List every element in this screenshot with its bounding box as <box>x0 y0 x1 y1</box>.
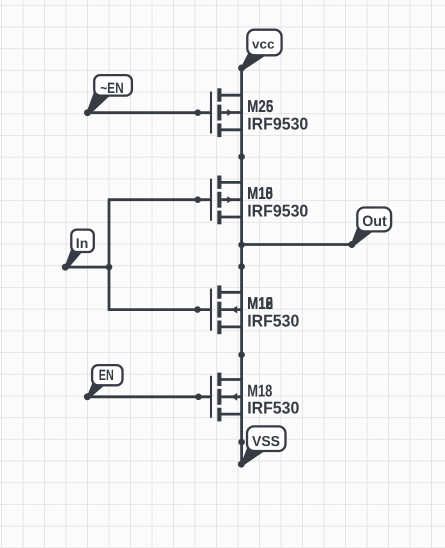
pin dot M26 gate <box>195 109 202 116</box>
wire: EN to M18 gate <box>87 395 210 398</box>
svg-text:IRF9530: IRF9530 <box>247 202 308 221</box>
transistor M26 (PMOS) <box>211 88 242 137</box>
svg-text:~EN: ~EN <box>100 80 124 97</box>
wire: ~EN to M26 gate <box>88 111 211 114</box>
net flag VSS <box>238 426 286 467</box>
transistor M15 (NMOS) <box>211 285 242 334</box>
wire: In to M18 gate <box>109 198 210 201</box>
svg-text:IRF9530: IRF9530 <box>247 114 308 133</box>
wire: Out <box>242 243 352 246</box>
svg-text:IRF530: IRF530 <box>247 399 299 418</box>
junction dot rail below Out <box>238 263 245 270</box>
svg-text:M26: M26 <box>247 97 273 116</box>
svg-text:Out: Out <box>362 213 387 230</box>
svg-text:vcc: vcc <box>252 36 275 51</box>
label M15 IRF530 <box>247 294 299 330</box>
wire: In vertical bus <box>108 198 111 311</box>
net flag ~EN <box>84 75 132 116</box>
svg-text:M18: M18 <box>247 184 273 203</box>
wire: main vertical rail vcc to vss <box>240 68 243 464</box>
net flag EN <box>84 365 123 400</box>
label M18 IRF530 <box>247 381 299 417</box>
pin dot M18 upper gate <box>195 196 202 203</box>
junction dot rail above VSS <box>238 439 245 446</box>
junction dot In bus <box>106 264 113 271</box>
svg-text:M18: M18 <box>247 294 273 313</box>
wire: In horizontal to junction <box>65 266 109 269</box>
transistor M18 lower (NMOS) <box>211 373 242 422</box>
svg-text:In: In <box>76 235 89 251</box>
label M26 IRF9530 <box>247 97 308 133</box>
transistor M18 upper (PMOS) <box>211 176 242 225</box>
junction dot rail T1-T2 <box>238 153 245 160</box>
svg-text:EN: EN <box>99 367 114 384</box>
net flag In <box>62 230 94 271</box>
junction dot rail T3-T4 <box>238 352 245 359</box>
pin dot M15 gate <box>194 306 201 313</box>
junction dot rail Out node <box>238 242 245 249</box>
svg-text:M18: M18 <box>247 381 272 400</box>
label M18 IRF9530 <box>247 184 308 220</box>
net flag Out <box>348 208 391 249</box>
svg-text:VSS: VSS <box>252 434 280 450</box>
wire: In to M15 gate <box>109 308 210 311</box>
pin dot M18 lower gate <box>195 394 202 401</box>
net flag vcc <box>238 30 282 72</box>
svg-text:IRF530: IRF530 <box>247 312 299 331</box>
